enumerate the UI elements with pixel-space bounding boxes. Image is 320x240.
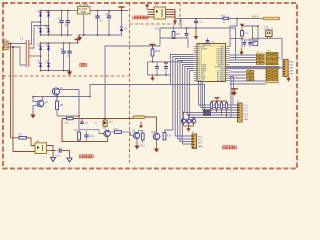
wire R8 to U3 pin1 [26, 138, 35, 146]
connector J4 [237, 101, 242, 122]
bus to connector stub [281, 67, 283, 69]
U4 right pin stubs maroon [166, 10, 176, 18]
svg-text:R13: R13 [156, 50, 161, 53]
resistor R10 horizontal [109, 128, 131, 133]
crystal cap C9 [248, 39, 252, 47]
diode D6 [38, 44, 43, 50]
regulator gnd stem [83, 14, 85, 35]
section label (仿真电路) [133, 16, 149, 19]
MCU right pin text [215, 46, 225, 82]
crystal cap C8 [243, 39, 247, 47]
svg-text:GND: GND [244, 119, 249, 121]
ground Q6 [134, 146, 139, 150]
capacitor C10 [56, 148, 70, 157]
small power stub right of fuse [139, 122, 143, 129]
ground Q10 [154, 149, 159, 153]
diode D8 [38, 61, 43, 67]
capacitor C2 [65, 11, 71, 36]
U4 left pin wires [148, 10, 155, 18]
long top wire y=18.5 [176, 19, 263, 29]
svg-text:GND: GND [198, 146, 203, 148]
wire MCU bottom drops [199, 82, 238, 111]
gnd arrow below rail [150, 75, 154, 81]
gnd stem from wire2 [194, 28, 199, 40]
svg-text:VT1: VT1 [109, 121, 114, 124]
svg-text:BEEP: BEEP [250, 43, 256, 45]
ground sym 1 [50, 158, 55, 162]
resistor R6 [56, 101, 64, 116]
junction dot mains A [10, 43, 12, 45]
capacitor C4 [105, 11, 112, 36]
power arrow above U4 left [145, 5, 149, 10]
wire P1 pin2 to transformer [8, 47, 26, 65]
diode D1 [38, 10, 43, 17]
zener D5 [120, 11, 128, 36]
resistor R16 inline on top wire [222, 16, 229, 24]
long wire under MCU to detect block [171, 85, 205, 110]
power arrow down sim [173, 21, 177, 25]
photo transistor V2 [186, 119, 191, 124]
MCU left pin stubs [194, 47, 198, 81]
bottom slate wire trigger [57, 115, 79, 117]
svg-text:+C4: +C4 [105, 13, 110, 16]
regulator U2 7805 [78, 4, 91, 14]
svg-text:R14: R14 [167, 135, 172, 138]
resistor R8 [11, 134, 27, 140]
arrow down right of MCU [231, 89, 238, 96]
arrow down above J4 [231, 89, 235, 106]
wire P1 pin1 to transformer [8, 43, 26, 45]
junction dots trigger [32, 96, 106, 120]
section divider vertical x=129.5 [129, 3, 131, 165]
wire Q4 base from left [33, 97, 37, 102]
detection cap column 4 [225, 101, 227, 117]
diode D2 [46, 10, 51, 17]
section divider horizontal y=76 left half [3, 75, 130, 77]
capacitor C6 [67, 43, 72, 71]
resistor R9 vertical [75, 129, 81, 140]
resistor R7 inline [66, 117, 74, 125]
section label 检测电路 [223, 146, 237, 149]
mains wire down left 1 [10, 44, 12, 138]
wire transformer sec3 to bridge2 [30, 55, 41, 57]
drop from wire2 with cap C17 [185, 27, 189, 38]
wire y=61.8 [148, 61, 184, 63]
J4 right labels [244, 105, 249, 121]
svg-text:Q10: Q10 [151, 131, 156, 134]
transistor Q5 [99, 127, 110, 142]
J3 right labels [198, 137, 203, 148]
photo transistor V2 stem [188, 114, 190, 118]
transformer T1 [20, 36, 30, 67]
power bar and resistor R13 [150, 45, 161, 62]
inductor L1 on top wire [263, 17, 280, 20]
connector J3 [192, 132, 197, 149]
diode D7 [46, 44, 51, 50]
capacitor C14 [155, 62, 159, 75]
connector P1 mains input [4, 37, 9, 49]
label under corner [250, 43, 256, 45]
dark block comparator [203, 110, 211, 116]
VCC arrow up [240, 24, 244, 31]
capacitor C1 [58, 11, 64, 36]
bridge1 frame wires [41, 11, 73, 36]
junction dots corner [236, 18, 258, 40]
J2 right labels [289, 62, 294, 76]
power section bottom rail [78, 34, 123, 36]
svg-text:VCC: VCC [155, 28, 160, 31]
sheet background [0, 0, 300, 172]
resistor R15 [241, 31, 249, 39]
svg-text:SPEAKER: SPEAKER [264, 28, 274, 31]
transistor Q3 [52, 87, 63, 95]
main trigger rail maroon [62, 119, 133, 142]
wire Q3 emitter [56, 95, 58, 101]
net label on top wire [252, 15, 259, 19]
left stubs of lower rows [0, 0, 1, 1]
mains wire down left 2 [12, 47, 14, 152]
fuse on rail [133, 116, 145, 119]
svg-text:GND: GND [81, 11, 87, 14]
ground under regulator [77, 35, 82, 41]
bridge2 frame wires [41, 43, 80, 71]
resistor array RP3 [247, 71, 254, 81]
junction dots rail [83, 10, 122, 36]
crystal Y1 [245, 40, 258, 46]
capacitor C16 above MCU [206, 38, 215, 44]
ground bridge2 [67, 71, 72, 76]
wire mains-sense from MCU region down to trigger rail [105, 46, 160, 119]
resistor R14 vertical [163, 130, 172, 140]
right vertical of trigger loop [78, 90, 80, 133]
speaker wire [253, 38, 283, 59]
long wire fan-out left to trigger [90, 85, 171, 97]
photo transistor V1 [181, 119, 186, 124]
key row ground tie [184, 123, 194, 132]
section label 电源 [80, 63, 87, 66]
svg-text:P1: P1 [4, 37, 8, 41]
resistor array RP4 [266, 68, 278, 83]
MCU left pin text [198, 46, 208, 82]
transistor Q10 [151, 131, 160, 149]
outer dashed sheet border [3, 3, 297, 169]
sim box divider vertical x=180 [179, 3, 181, 24]
svg-text:R11: R11 [141, 145, 146, 148]
corner loop wires [230, 19, 258, 48]
connector J2 [277, 58, 289, 77]
photo transistor V1 stem [183, 112, 185, 119]
wire transformer sec2 to bridge1 [30, 26, 49, 49]
power bar detection rail [212, 98, 227, 101]
junction dots mid [152, 18, 197, 76]
wire U3 right pin2 to cap [47, 150, 57, 152]
capacitor C15 with bar [164, 63, 168, 75]
thick data bus [225, 66, 281, 69]
photo transistor V3 [191, 119, 196, 124]
svg-text:BEEP: BEEP [252, 15, 259, 19]
capacitor C11 vertical [84, 131, 94, 142]
sim box divider horizontal y=24 [130, 23, 181, 25]
bottom rail left of MCU [148, 62, 171, 75]
resistor R11 vertical [138, 131, 145, 148]
svg-text:+C5: +C5 [60, 48, 65, 51]
svg-text:R10: R10 [114, 128, 119, 131]
arrow down from array rail [239, 48, 243, 56]
detection cap column 2 [215, 101, 217, 112]
diode D9 [46, 61, 51, 67]
svg-text:R12: R12 [176, 33, 181, 36]
second wire y=26.5 [160, 28, 236, 60]
maroon drop wire from U4 [174, 10, 176, 21]
wires MCU right to arrays [230, 55, 257, 63]
section label 触发电路 [80, 155, 94, 158]
wires below bus to arrays [230, 72, 266, 84]
VCC text [155, 28, 160, 31]
junction dot mains B [12, 46, 14, 48]
cap C12 below top wire [194, 19, 203, 29]
capacitor C3 [95, 11, 103, 36]
transistor Q6 [131, 130, 140, 146]
MCU right pin stubs [226, 47, 230, 81]
optotriac U3 [35, 140, 47, 153]
power bar +5V [119, 7, 125, 11]
capacitor C5 [60, 43, 66, 71]
speaker LS1 [264, 27, 274, 39]
wire top tie bottom-middle [79, 129, 99, 131]
wire transformer sec1 to bridge1 [30, 22, 41, 44]
resistor R12 below arrow [172, 26, 181, 39]
svg-text:+C1: +C1 [58, 18, 63, 21]
svg-text:104: 104 [65, 24, 70, 27]
junction dots bridge2 [40, 42, 71, 71]
array labels [247, 51, 272, 71]
svg-text:P2.2/A10: P2.2/A10 [217, 79, 225, 82]
diode D4 [46, 26, 51, 33]
Q4 emitter to ground [30, 106, 37, 119]
regulator output wire [90, 10, 128, 12]
svg-text:U2 7805: U2 7805 [79, 4, 89, 7]
junction dots bridge1 [40, 10, 69, 36]
opto transistor Q4 [37, 100, 48, 107]
detection cap column 1 [210, 101, 212, 110]
detection cap column 3 [220, 101, 222, 115]
resistor array RP2 [266, 52, 278, 65]
svg-text:C11: C11 [90, 135, 95, 138]
ground sym 2 [67, 151, 72, 163]
cap under rail [80, 119, 89, 126]
diode D3 [38, 26, 43, 33]
triac VT1 [95, 119, 114, 127]
wire base row trigger [33, 96, 90, 98]
svg-text:G: G [95, 122, 97, 125]
wire net y38 into MCU pin1 [160, 38, 188, 48]
wire mains2 to U3 pin2 [13, 151, 35, 153]
wire Q3 collector row [58, 89, 79, 91]
wire U3 right pin1 to gnd [47, 146, 53, 158]
photo transistor V3 stem [193, 117, 195, 119]
svg-text:C10: C10 [56, 155, 61, 158]
wire bridge1 to regulator [72, 10, 78, 12]
wire Q4 collector up [42, 97, 44, 101]
resistor array RP1 [256, 54, 264, 64]
opto U4 [154, 4, 166, 19]
gnd arrow below J2 [286, 77, 290, 82]
MCU right upper vertical drops to detect rows [230, 77, 234, 118]
wire from fuse to Q10 top [145, 117, 157, 133]
wire riser x=160 to net y28 [159, 28, 161, 46]
maroon bottom tie [79, 140, 108, 142]
power bar +12V [75, 40, 81, 44]
